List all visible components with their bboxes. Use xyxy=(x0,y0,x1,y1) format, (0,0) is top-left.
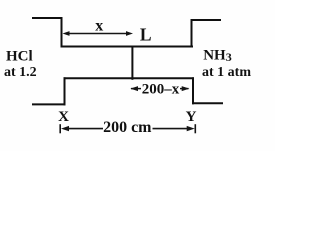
svg-text:L: L xyxy=(140,25,152,45)
svg-text:200–x: 200–x xyxy=(142,82,180,98)
svg-text:at 1 atm: at 1 atm xyxy=(202,65,251,80)
tick left xyxy=(59,124,61,133)
svg-text:at 1.2: at 1.2 xyxy=(4,65,37,80)
svg-text:Y: Y xyxy=(186,109,197,125)
svg-text:NH3: NH3 xyxy=(203,47,232,64)
wire right bottom wall xyxy=(192,78,194,103)
wire left top wall xyxy=(61,18,63,47)
arrow x dimension xyxy=(63,31,134,36)
arrow 200-x dimension xyxy=(130,86,189,91)
wire bottom-left ledge xyxy=(33,103,65,105)
svg-text:X: X xyxy=(58,109,69,125)
wire left bottom wall xyxy=(64,78,66,104)
wire top-left ledge xyxy=(33,17,62,19)
tick right xyxy=(194,124,196,133)
svg-text:200 cm: 200 cm xyxy=(103,119,152,136)
wire tube bottom xyxy=(65,77,194,79)
svg-text:HCl: HCl xyxy=(6,49,33,65)
wire divider at L xyxy=(131,47,133,79)
wire right top wall xyxy=(191,20,193,47)
svg-text:x: x xyxy=(95,17,103,34)
wire tube top xyxy=(62,46,193,48)
wire bottom-right ledge xyxy=(193,102,222,104)
wire top-right ledge xyxy=(192,19,221,21)
arrow 200 cm dimension xyxy=(60,124,195,133)
